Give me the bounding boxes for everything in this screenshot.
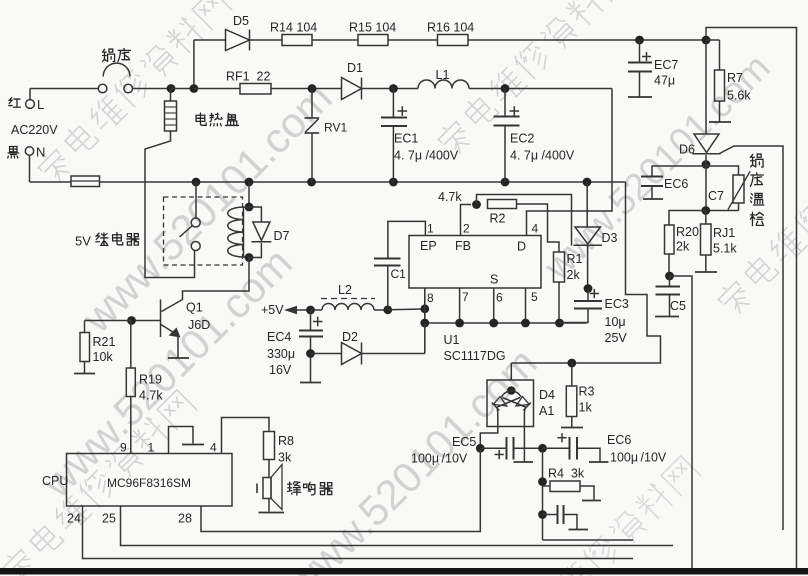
svg-text:6: 6	[496, 291, 503, 305]
svg-text:4. 7μ /400V: 4. 7μ /400V	[510, 149, 575, 163]
svg-text:1: 1	[427, 222, 434, 236]
svg-text:100μ /10V: 100μ /10V	[411, 452, 468, 466]
svg-text:EC7: EC7	[654, 58, 678, 72]
svg-text:EC5: EC5	[452, 435, 476, 449]
svg-text:D4: D4	[539, 388, 555, 402]
svg-text:4.7k: 4.7k	[139, 389, 163, 403]
svg-text:EC2: EC2	[510, 132, 534, 146]
svg-text:4: 4	[532, 222, 539, 236]
svg-text:1k: 1k	[579, 401, 593, 415]
svg-text:5.1k: 5.1k	[713, 242, 737, 256]
svg-text:16V: 16V	[269, 363, 292, 377]
svg-text:RF1 22: RF1 22	[226, 70, 271, 84]
svg-text:+5V: +5V	[261, 303, 284, 317]
svg-text:S: S	[490, 273, 498, 287]
svg-text:330μ: 330μ	[267, 347, 295, 361]
svg-text:R15 104: R15 104	[349, 21, 396, 35]
svg-text:R8: R8	[278, 434, 294, 448]
svg-text:2: 2	[463, 222, 470, 236]
svg-text:10k: 10k	[93, 350, 114, 364]
svg-text:A1: A1	[539, 404, 554, 418]
svg-text:D1: D1	[347, 61, 363, 75]
svg-text:C5: C5	[670, 299, 686, 313]
svg-text:100μ /10V: 100μ /10V	[610, 451, 667, 465]
svg-text:U1: U1	[444, 333, 460, 347]
svg-text:R1: R1	[567, 252, 583, 266]
svg-text:MC96F8316SM: MC96F8316SM	[107, 476, 191, 490]
svg-text:R19: R19	[139, 373, 162, 387]
svg-text:L: L	[37, 97, 44, 112]
svg-text:RJ1: RJ1	[713, 226, 735, 240]
svg-text:4. 7μ /400V: 4. 7μ /400V	[394, 149, 459, 163]
svg-text:L2: L2	[338, 283, 352, 297]
svg-text:R14 104: R14 104	[270, 21, 317, 35]
svg-text:R2: R2	[490, 212, 506, 226]
svg-text:2k: 2k	[567, 268, 581, 282]
svg-text:24: 24	[67, 512, 81, 526]
svg-text:R16 104: R16 104	[427, 21, 474, 35]
svg-text:R4 3k: R4 3k	[548, 467, 585, 481]
svg-text:D3: D3	[602, 231, 618, 245]
svg-text:25: 25	[102, 512, 116, 526]
svg-text:EC3: EC3	[605, 297, 629, 311]
svg-text:10μ: 10μ	[605, 315, 626, 329]
svg-text:C1: C1	[391, 267, 407, 281]
svg-text:7: 7	[462, 290, 469, 304]
svg-text:28: 28	[178, 512, 192, 526]
svg-text:C7: C7	[708, 189, 724, 203]
svg-text:R20: R20	[676, 225, 699, 239]
svg-text:R3: R3	[579, 385, 595, 399]
svg-text:2k: 2k	[676, 240, 690, 254]
svg-text:25V: 25V	[605, 331, 628, 345]
svg-text:47μ: 47μ	[654, 74, 675, 88]
svg-text:J6D: J6D	[188, 318, 210, 332]
svg-text:EC4: EC4	[267, 330, 291, 344]
svg-text:5V: 5V	[75, 234, 91, 249]
svg-text:9: 9	[120, 441, 127, 455]
svg-text:D6: D6	[679, 143, 695, 157]
svg-text:5.6k: 5.6k	[727, 89, 751, 103]
svg-text:EC1: EC1	[394, 132, 418, 146]
svg-text:D7: D7	[274, 229, 290, 243]
svg-text:EC6: EC6	[607, 433, 631, 447]
svg-text:3k: 3k	[278, 451, 292, 465]
svg-text:FB: FB	[455, 239, 471, 253]
svg-text:1: 1	[148, 441, 155, 455]
svg-text:RV1: RV1	[324, 121, 347, 135]
svg-text:D5: D5	[233, 14, 249, 28]
svg-text:8: 8	[427, 291, 434, 305]
svg-text:5: 5	[531, 290, 538, 304]
svg-text:EC6: EC6	[664, 177, 688, 191]
svg-text:Q1: Q1	[186, 301, 203, 315]
svg-text:N: N	[36, 145, 45, 160]
svg-text:CPU: CPU	[42, 474, 68, 488]
svg-text:4.7k: 4.7k	[438, 190, 462, 204]
svg-text:AC220V: AC220V	[11, 123, 58, 137]
svg-text:R21: R21	[93, 335, 116, 349]
svg-text:D2: D2	[342, 330, 358, 344]
svg-text:SC1117DG: SC1117DG	[444, 349, 506, 363]
svg-text:EP: EP	[420, 239, 437, 253]
svg-text:D: D	[517, 240, 526, 254]
svg-text:4: 4	[210, 441, 217, 455]
svg-text:R7: R7	[727, 71, 743, 85]
